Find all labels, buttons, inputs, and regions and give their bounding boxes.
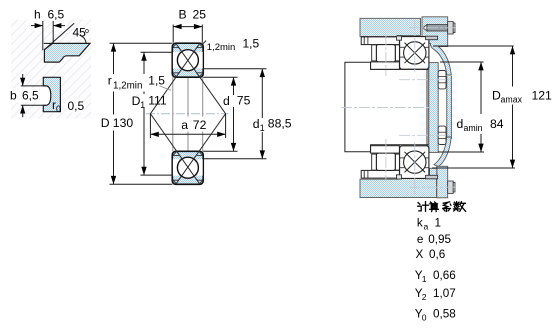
svg-text:1,5: 1,5: [148, 74, 165, 88]
45 degree arc: [80, 35, 87, 43]
svg-text:1,07: 1,07: [433, 287, 456, 300]
extension line right of h dim: [52, 21, 54, 43]
end plate bolt lower: [438, 126, 446, 144]
groove white void: [40, 85, 51, 107]
snap ring upper: [426, 36, 438, 40]
svg-text:o: o: [85, 28, 89, 35]
svg-text:d: d: [223, 94, 230, 108]
b dimension arrows: [22, 74, 24, 86]
svg-text:d: d: [457, 117, 464, 131]
svg-text:88,5: 88,5: [268, 117, 292, 131]
svg-text:1: 1: [140, 100, 145, 110]
D1 dimension: [141, 51, 173, 53]
svg-text:a: a: [424, 222, 429, 232]
svg-text:1: 1: [422, 274, 427, 284]
damin dimension: [440, 61, 484, 63]
housing lower block: [360, 178, 437, 197]
shaft outline: [345, 62, 429, 152]
upper ball: [177, 50, 198, 71]
cover screw upper: [423, 25, 427, 31]
svg-text:a: a: [181, 118, 188, 132]
svg-text:0,6: 0,6: [429, 248, 445, 261]
svg-text:1,2min: 1,2min: [113, 81, 142, 92]
r 1,2min label left: [106, 74, 147, 92]
hatch background of detail views: [8, 20, 91, 119]
contact angle lines: [150, 44, 225, 183]
snap ring groove detail (axial) blue section: [44, 43, 90, 62]
lower bearing section square: [172, 151, 203, 184]
cover ring strip: [446, 77, 451, 139]
svg-text:b: b: [10, 89, 17, 103]
cover upper: [422, 17, 451, 75]
svg-text:0,58: 0,58: [433, 308, 456, 321]
svg-text:0: 0: [422, 313, 427, 323]
svg-text:130: 130: [113, 116, 134, 130]
svg-text:0,5: 0,5: [68, 99, 85, 113]
snap ring lower: [426, 175, 438, 179]
svg-text:2: 2: [422, 292, 427, 302]
d dimension: [203, 76, 237, 78]
cover screw lower: [448, 181, 454, 193]
chinese title drawn as strokes: [418, 202, 466, 212]
centerline horizontal: [146, 113, 229, 115]
d1 dimension: [204, 68, 267, 70]
svg-text:1: 1: [260, 123, 265, 133]
QJ bearing upper section: [400, 37, 429, 70]
section connecting lines: [173, 77, 203, 151]
svg-text:0,66: 0,66: [433, 269, 456, 282]
end plate bolt upper: [438, 71, 446, 89]
svg-text:6,5: 6,5: [22, 89, 39, 103]
svg-text:72: 72: [193, 118, 207, 132]
end plate: [429, 63, 438, 153]
upper bearing section square: [172, 43, 203, 77]
svg-text:amax: amax: [501, 95, 523, 105]
svg-text:121: 121: [532, 89, 553, 103]
svg-text:111: 111: [148, 93, 167, 107]
svg-text:25: 25: [193, 8, 207, 22]
svg-text:84: 84: [490, 117, 504, 131]
svg-text:1: 1: [435, 217, 442, 230]
leader gray: [160, 86, 171, 91]
svg-text:k: k: [417, 217, 423, 230]
svg-text:h: h: [34, 8, 41, 22]
roller bearing lower: [361, 170, 399, 178]
centerlines: [341, 20, 457, 195]
roller upper: [376, 45, 395, 62]
1,2min label right: [203, 41, 206, 44]
svg-text:1,2min: 1,2min: [207, 42, 236, 53]
svg-text:0: 0: [56, 104, 61, 114]
a dimension: [149, 114, 151, 138]
snap ring groove detail (radial) blue section: [43, 77, 60, 111]
B dimension: [172, 25, 174, 43]
shaft end face line: [426, 69, 428, 145]
QJ bearing lower section: [400, 146, 429, 179]
svg-text:X: X: [416, 248, 424, 261]
svg-text:6,5: 6,5: [48, 8, 65, 22]
D dimension: [110, 42, 173, 44]
roller bearing upper: outer ring: [361, 37, 399, 45]
svg-text:0,95: 0,95: [428, 233, 451, 246]
svg-text:75: 75: [237, 94, 251, 108]
roller bearing upper: inner ring: [371, 62, 400, 69]
svg-text:1,5: 1,5: [243, 37, 260, 51]
svg-text:amin: amin: [464, 123, 483, 133]
45 degree chamfer line: [44, 23, 74, 50]
extension line left of h dim: [42, 21, 44, 50]
Damax dimension: [433, 45, 514, 47]
b extension lines: [21, 85, 46, 87]
svg-text:B: B: [179, 8, 187, 22]
svg-text:D: D: [101, 116, 110, 130]
svg-text:d: d: [253, 117, 260, 131]
svg-text:r: r: [108, 74, 112, 88]
cover lower: [434, 137, 451, 167]
h 6,5 dimension arrows: [31, 25, 65, 27]
lower ball: [177, 157, 198, 178]
svg-text:e: e: [417, 233, 424, 246]
roller bearing upper: cage bars: [372, 45, 377, 61]
housing upper block: [360, 18, 421, 36]
